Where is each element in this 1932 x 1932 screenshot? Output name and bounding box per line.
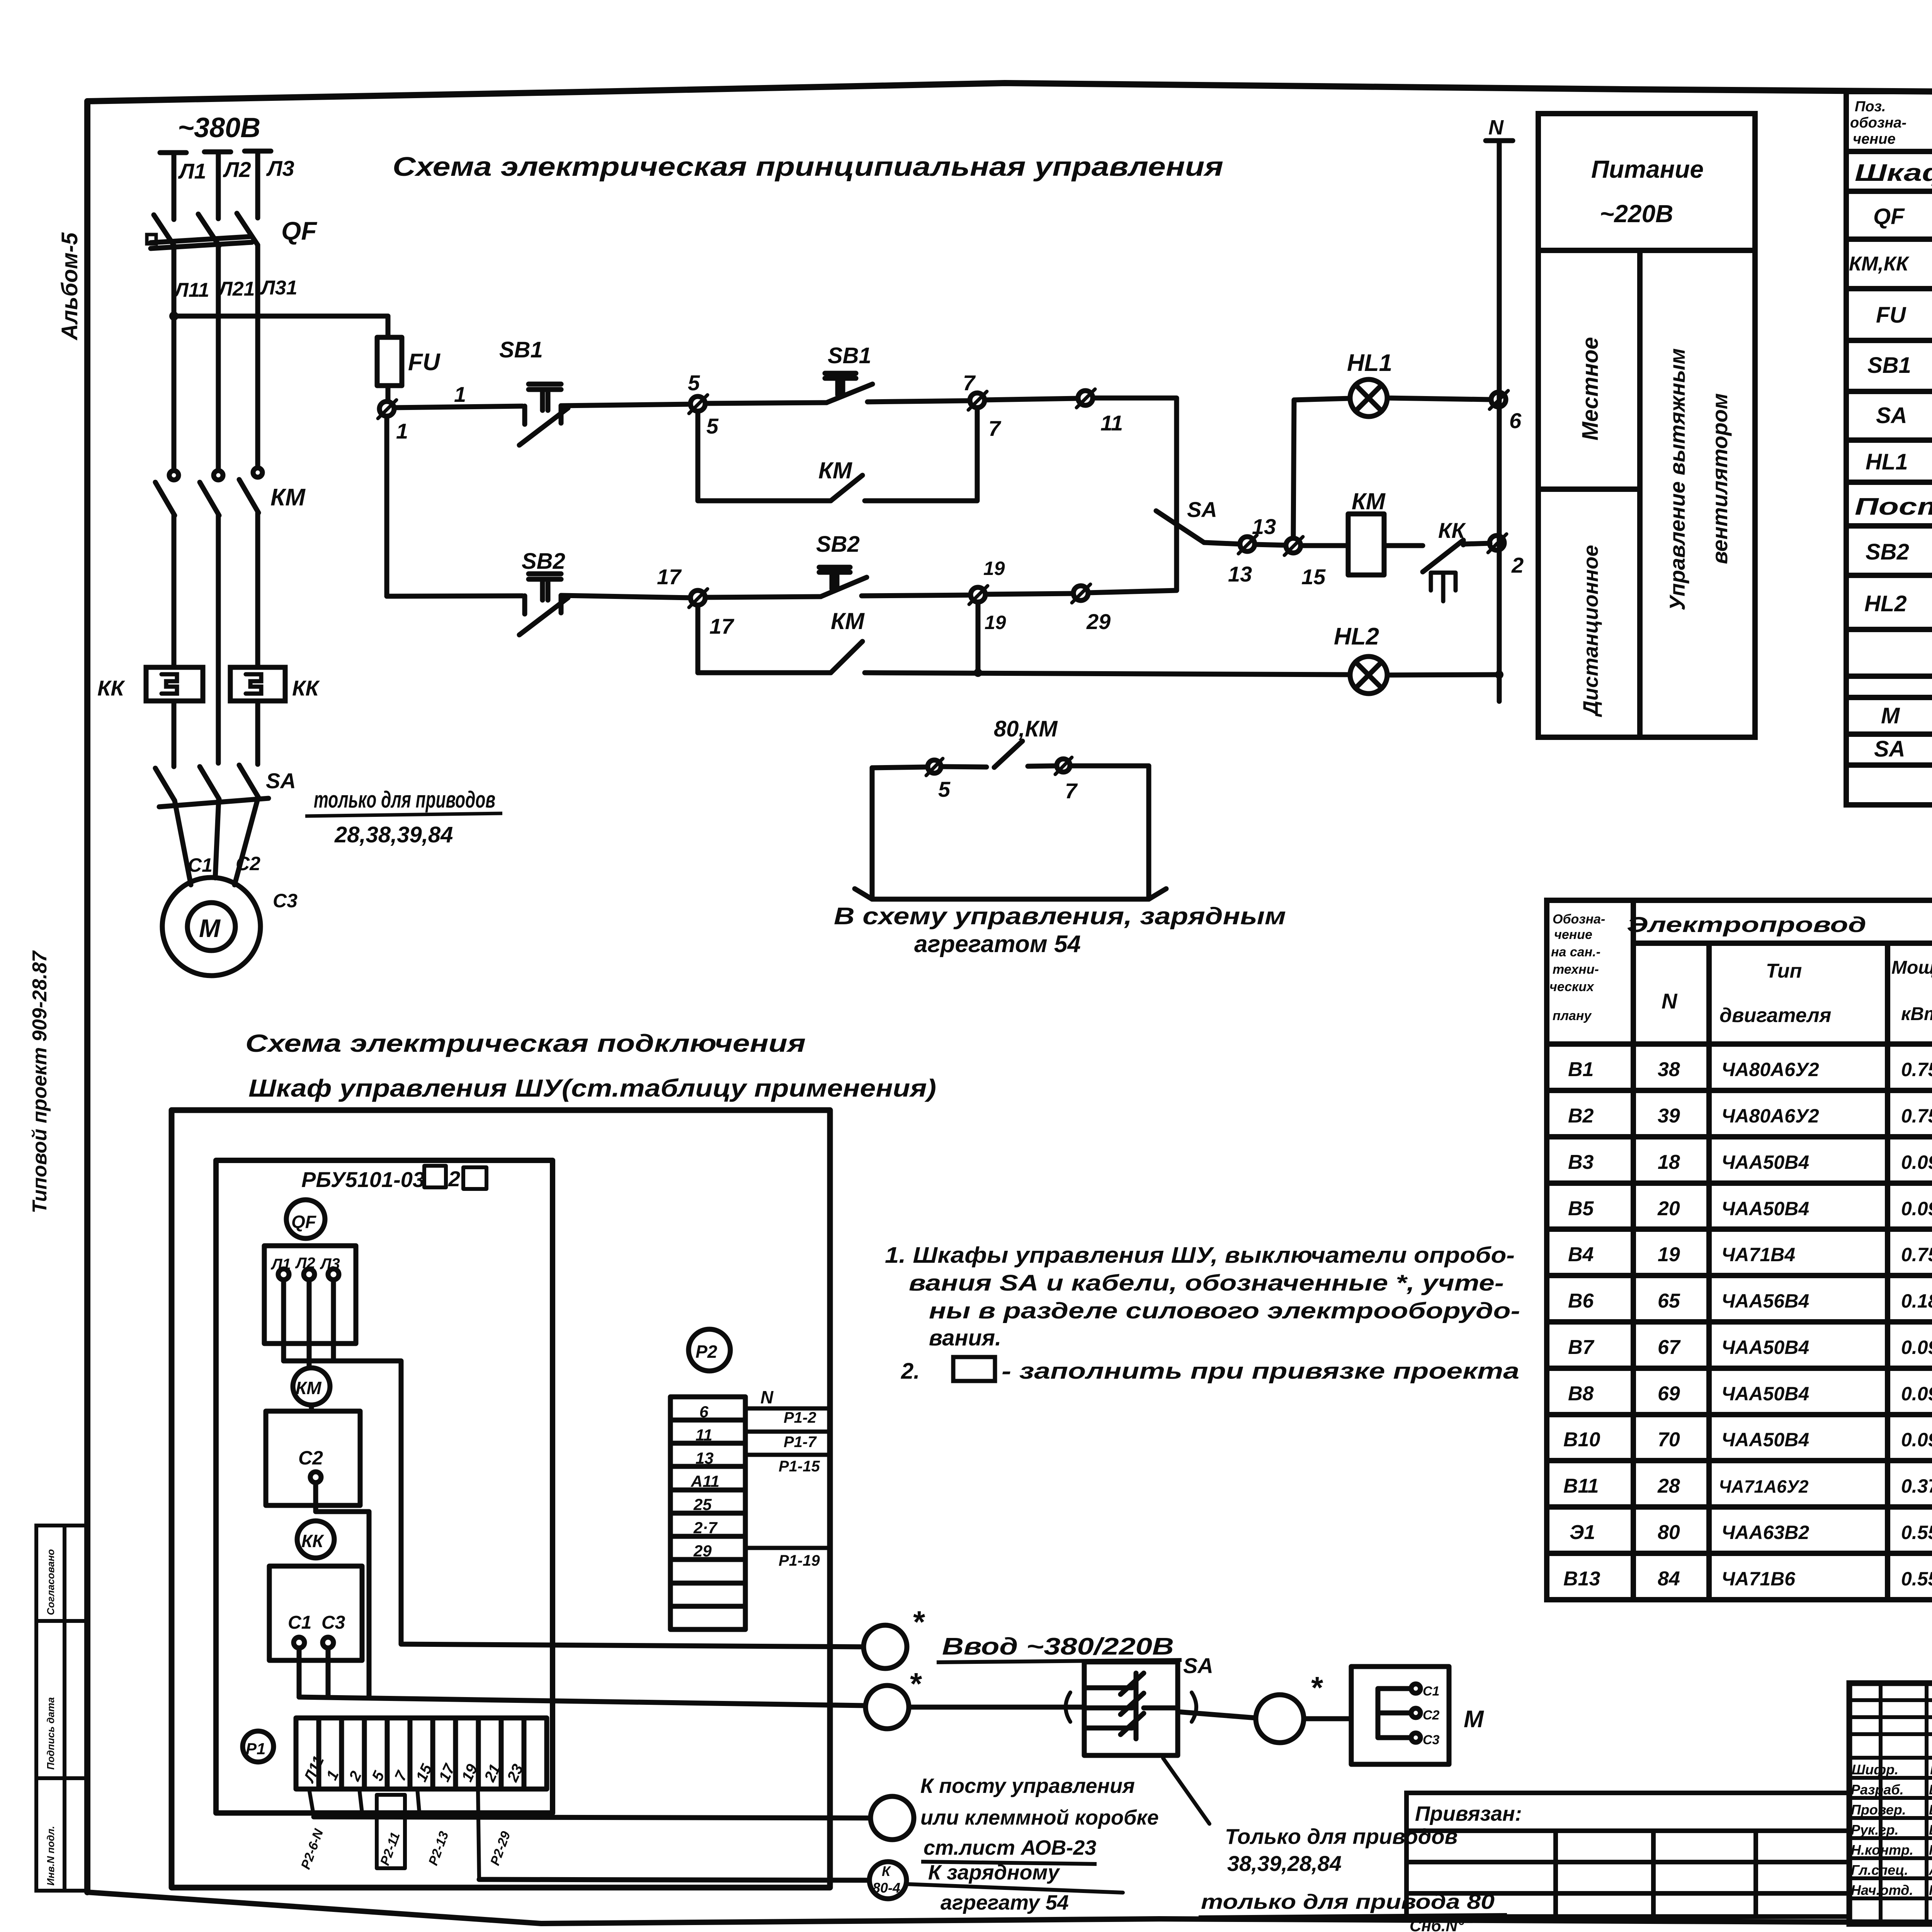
svg-text:ЧАА50В4: ЧАА50В4 xyxy=(1721,1198,1809,1219)
svg-text:Снб.N°: Снб.N° xyxy=(1410,1917,1464,1932)
vvod circle 1 xyxy=(864,1625,907,1668)
header poz xyxy=(1850,99,1906,147)
svg-text:69: 69 xyxy=(1658,1383,1680,1405)
button SB1 NC xyxy=(519,384,568,445)
svg-text:6: 6 xyxy=(699,1403,709,1421)
wire row1 FU to SB1 xyxy=(394,406,522,408)
node 19 circle xyxy=(969,586,988,604)
wire SA to node13 xyxy=(1204,543,1240,544)
svg-text:SВ2: SВ2 xyxy=(816,532,860,557)
svg-text:N докум: N докум xyxy=(1930,1762,1932,1777)
terminal box L1L2L3 xyxy=(264,1246,356,1344)
svg-text:17: 17 xyxy=(657,565,682,589)
switch SA control arm xyxy=(1156,511,1204,543)
wire row2 start to SB2 xyxy=(387,596,522,596)
svg-text:В3: В3 xyxy=(1568,1151,1594,1173)
wire SB1start to node7 xyxy=(867,401,970,402)
svg-text:67: 67 xyxy=(1658,1336,1681,1359)
svg-text:вания SА и кабели, обозначенны: вания SА и кабели, обозначенные *, учте- xyxy=(909,1270,1504,1296)
svg-text:кВт.: кВт. xyxy=(1901,1004,1932,1024)
svg-text:Обозна-: Обозна- xyxy=(1553,912,1605,927)
svg-text:ЧА80А6У2: ЧА80А6У2 xyxy=(1721,1059,1819,1080)
svg-text:84: 84 xyxy=(1658,1568,1680,1590)
svg-text:плану: плану xyxy=(1553,1009,1592,1023)
wire coil to KK contact xyxy=(1384,543,1423,548)
svg-text:Поз.: Поз. xyxy=(1855,99,1886,115)
svg-text:Л1: Л1 xyxy=(270,1256,291,1273)
R1 strip cell labels rotated xyxy=(300,1753,527,1786)
k 80-4 circle xyxy=(869,1862,906,1899)
svg-text:К: К xyxy=(882,1863,891,1879)
svg-text:2: 2 xyxy=(1511,553,1524,577)
thermal contact KK break xyxy=(1423,540,1490,601)
HL1 branch vertical xyxy=(1293,398,1350,538)
svg-text:Р2: Р2 xyxy=(696,1342,718,1362)
wire to motor box xyxy=(1304,1716,1351,1721)
svg-text:Р1-7: Р1-7 xyxy=(784,1434,817,1451)
wire k 80-4 xyxy=(479,1879,869,1880)
svg-text:Подпись дата: Подпись дата xyxy=(45,1697,56,1770)
svg-text:Шкаф управления ШУ(ст. таблицу: Шкаф управления ШУ(ст. таблицу применени… xyxy=(1855,160,1932,186)
svg-text:0.55: 0.55 xyxy=(1901,1568,1932,1590)
svg-text:13: 13 xyxy=(1252,514,1276,539)
node 5 circle loop xyxy=(926,759,943,776)
svg-text:В11: В11 xyxy=(1563,1475,1599,1497)
svg-text:20: 20 xyxy=(1657,1197,1680,1220)
svg-text:С3: С3 xyxy=(321,1612,345,1633)
contact 80KM arm xyxy=(994,741,1022,767)
thermal relay KK left box xyxy=(146,667,203,701)
svg-text:5: 5 xyxy=(706,414,719,438)
svg-text:Л21: Л21 xyxy=(217,278,255,300)
svg-text:В5: В5 xyxy=(1568,1197,1594,1220)
thermal relay KK right box xyxy=(230,667,285,701)
wires from L box down xyxy=(284,1280,333,1368)
svg-text:FU: FU xyxy=(408,349,441,376)
box C2 xyxy=(266,1411,360,1505)
svg-text:N: N xyxy=(1488,116,1504,139)
phase verticals below KM xyxy=(174,513,258,763)
svg-text:С3: С3 xyxy=(273,890,298,912)
svg-text:КК: КК xyxy=(97,676,125,700)
svg-text:Э1: Э1 xyxy=(1570,1521,1595,1544)
component table frame xyxy=(1846,92,1932,805)
svg-text:КМ,КК: КМ,КК xyxy=(1849,253,1910,275)
svg-text:М: М xyxy=(199,914,221,942)
svg-text:Л2: Л2 xyxy=(223,157,251,182)
junction dot on L1 xyxy=(169,311,179,321)
svg-text:Н.контр.: Н.контр. xyxy=(1851,1842,1913,1858)
leader from k80-4 xyxy=(906,1884,1123,1893)
phase verticals below QF xyxy=(174,245,258,471)
R2 circle xyxy=(689,1329,730,1371)
svg-text:25: 25 xyxy=(693,1495,712,1514)
svg-text:0.75: 0.75 xyxy=(1901,1244,1932,1265)
wire SA to motor circle xyxy=(1178,1712,1256,1718)
svg-text:В схему управления, зарядным: В схему управления, зарядным xyxy=(834,903,1286,930)
KM aux contact branch row1 xyxy=(698,408,977,501)
svg-text:КМ: КМ xyxy=(1352,488,1386,514)
svg-text:ЧА71В4: ЧА71В4 xyxy=(1721,1244,1795,1265)
svg-text:Пост управления ПС (ст.табли: Пост управления ПС (ст.таблицу нрименени… xyxy=(1855,493,1932,520)
svg-text:0.09: 0.09 xyxy=(1901,1198,1932,1219)
box C1 C3 xyxy=(269,1566,362,1660)
wire node15 to KM coil xyxy=(1301,543,1348,548)
row KM KK xyxy=(1849,246,1932,285)
wire C2 to vvod2 xyxy=(316,1483,369,1697)
svg-text:Питание: Питание xyxy=(1591,155,1704,183)
svg-text:Дистанционное: Дистанционное xyxy=(1579,545,1602,717)
svg-text:0.18: 0.18 xyxy=(1901,1290,1932,1312)
svg-text:ЧАА50В4: ЧАА50В4 xyxy=(1721,1383,1809,1405)
svg-text:Л2: Л2 xyxy=(295,1255,315,1272)
node 2 circle xyxy=(1488,534,1507,553)
svg-text:Гл.спец.: Гл.спец. xyxy=(1851,1862,1908,1878)
svg-text:7: 7 xyxy=(963,371,976,395)
svg-text:КМ: КМ xyxy=(831,608,865,634)
svg-text:двигателя: двигателя xyxy=(1719,1004,1831,1027)
svg-text:Р1-2: Р1-2 xyxy=(784,1409,816,1426)
svg-text:Волкова: Волкова xyxy=(1929,1802,1932,1818)
row HL2 xyxy=(1864,582,1932,624)
svg-text:1. Шкафы управления ШУ, выключ: 1. Шкафы управления ШУ, выключатели опро… xyxy=(885,1243,1515,1268)
svg-text:Нач.отд.: Нач.отд. xyxy=(1851,1882,1913,1898)
svg-text:Ввод ~380/220В: Ввод ~380/220В xyxy=(942,1633,1174,1660)
svg-text:чение: чение xyxy=(1554,927,1592,942)
motor M circle xyxy=(162,878,260,976)
pitanie box frame xyxy=(1538,114,1755,737)
svg-text:Р1-15: Р1-15 xyxy=(779,1458,820,1475)
motor circle star xyxy=(1256,1695,1304,1743)
big table data column V xyxy=(1563,1058,1600,1590)
row SA po mestu xyxy=(1874,734,1932,767)
svg-text:М: М xyxy=(1881,703,1900,728)
svg-text:КК: КК xyxy=(1438,518,1466,543)
svg-text:В6: В6 xyxy=(1568,1290,1594,1312)
svg-text:РБУ5101-03: РБУ5101-03 xyxy=(301,1167,425,1192)
power feed wire to FU xyxy=(174,316,388,337)
lamp HL2 xyxy=(1350,656,1387,694)
svg-text:Шкаф управления ШУ(ст.таблицу: Шкаф управления ШУ(ст.таблицу применения… xyxy=(248,1074,936,1102)
component table rows xyxy=(1846,149,1932,154)
svg-text:N: N xyxy=(1662,989,1678,1013)
svg-text:N: N xyxy=(760,1387,774,1407)
svg-text:КК: КК xyxy=(301,1531,324,1551)
svg-text:80-4: 80-4 xyxy=(872,1880,900,1896)
KK circle xyxy=(297,1521,334,1558)
svg-text:Альбом-5: Альбом-5 xyxy=(57,232,82,341)
wire node11 to right corner xyxy=(1093,398,1177,590)
svg-text:Электропровод: Электропровод xyxy=(1627,912,1866,937)
svg-text:6: 6 xyxy=(1509,408,1522,433)
svg-text:Л3: Л3 xyxy=(320,1255,340,1272)
wire node13 to node15 xyxy=(1255,544,1286,545)
inner box RBU xyxy=(216,1160,553,1813)
svg-text:НL2: НL2 xyxy=(1864,591,1907,616)
svg-text:вания.: вания. xyxy=(929,1325,1001,1350)
wire HL1 to node6 xyxy=(1387,398,1490,400)
svg-text:19: 19 xyxy=(983,558,1005,579)
svg-text:SА: SА xyxy=(1183,1653,1213,1678)
QF circle xyxy=(286,1200,325,1238)
svg-text:29: 29 xyxy=(693,1542,712,1560)
row QF xyxy=(1873,198,1932,240)
big table header rows xyxy=(1633,940,1932,946)
svg-text:КМ: КМ xyxy=(296,1378,322,1398)
svg-text:SВ1: SВ1 xyxy=(828,343,871,368)
svg-text:ЧА80А6У2: ЧА80А6У2 xyxy=(1721,1105,1819,1127)
terminal strip R2 xyxy=(670,1397,745,1629)
svg-text:0.37: 0.37 xyxy=(1901,1475,1932,1497)
svg-text:Л31: Л31 xyxy=(260,277,298,299)
big table data column N xyxy=(1657,1058,1681,1590)
row FU xyxy=(1876,296,1932,339)
svg-text:КМ: КМ xyxy=(818,457,853,483)
button SB1 NO start xyxy=(825,373,872,403)
svg-text:В4: В4 xyxy=(1568,1243,1594,1266)
svg-text:1: 1 xyxy=(454,382,466,406)
svg-text:В2: В2 xyxy=(1568,1105,1594,1127)
big table frame xyxy=(1547,900,1932,1600)
svg-text:1: 1 xyxy=(396,419,408,443)
svg-text:19: 19 xyxy=(1658,1243,1680,1266)
svg-text:5: 5 xyxy=(688,371,700,395)
svg-text:Инв.N подл.: Инв.N подл. xyxy=(45,1826,56,1886)
phase verticals below KK xyxy=(174,701,258,767)
svg-text:11: 11 xyxy=(696,1426,713,1444)
svg-text:7: 7 xyxy=(988,416,1002,440)
svg-text:Р1-19: Р1-19 xyxy=(779,1552,820,1569)
svg-text:15: 15 xyxy=(1301,565,1326,589)
fuse FU xyxy=(377,337,402,401)
R1 strip drops xyxy=(309,1789,479,1879)
svg-text:С2: С2 xyxy=(1423,1708,1440,1723)
svg-text:агрегатом 54: агрегатом 54 xyxy=(914,931,1081,957)
svg-text:ны в разделе силового электроо: ны в разделе силового электрооборудо- xyxy=(929,1298,1520,1323)
svg-text:НL2: НL2 xyxy=(1334,623,1379,650)
svg-text:ЧАА50В4: ЧАА50В4 xyxy=(1721,1337,1809,1358)
svg-text:28: 28 xyxy=(1657,1475,1680,1497)
wire k postu xyxy=(314,1817,871,1818)
big table verticals xyxy=(1631,900,1636,1600)
neutral line N xyxy=(1486,141,1513,701)
svg-text:80,КМ: 80,КМ xyxy=(994,716,1058,742)
svg-text:0.09: 0.09 xyxy=(1901,1429,1932,1451)
svg-text:В7: В7 xyxy=(1568,1336,1595,1359)
svg-text:ст.лист АОВ-23: ст.лист АОВ-23 xyxy=(923,1836,1096,1859)
svg-text:Согласовано: Согласовано xyxy=(45,1549,56,1615)
R2 wires right xyxy=(745,1408,828,1548)
node 7 circle xyxy=(968,391,987,410)
svg-text:38: 38 xyxy=(1658,1058,1680,1081)
row SB2 xyxy=(1866,539,1932,565)
svg-text:SВ1: SВ1 xyxy=(1867,353,1911,378)
staff rows xyxy=(1851,1762,1932,1898)
svg-text:К посту управления: К посту управления xyxy=(920,1774,1135,1798)
node 5 circle xyxy=(689,395,707,413)
switch SA power blades xyxy=(155,765,269,807)
wire SB1 to node5 xyxy=(561,404,690,406)
svg-text:агрегату 54: агрегату 54 xyxy=(940,1891,1069,1914)
node 29 circle xyxy=(1072,584,1090,603)
svg-text:*: * xyxy=(909,1667,922,1701)
node 1 circle xyxy=(378,400,396,418)
left margin stamp table xyxy=(36,1526,87,1891)
svg-text:7: 7 xyxy=(1065,779,1078,803)
svg-text:Р1: Р1 xyxy=(246,1740,265,1758)
svg-text:65: 65 xyxy=(1658,1290,1680,1312)
svg-text:НL1: НL1 xyxy=(1866,449,1908,474)
svg-text:Рук.гр.: Рук.гр. xyxy=(1851,1822,1899,1838)
svg-text:~380В: ~380В xyxy=(178,112,260,143)
svg-text:13: 13 xyxy=(696,1449,714,1467)
node 13 circle xyxy=(1238,535,1257,554)
svg-text:- заполнить при привязке проек: - заполнить при привязке проекта xyxy=(1002,1359,1519,1384)
svg-text:К зарядному: К зарядному xyxy=(928,1861,1060,1884)
svg-text:или клеммной коробке: или клеммной коробке xyxy=(920,1806,1159,1829)
wire node29 to SA vertical xyxy=(1088,590,1177,593)
cabinet ShU outer box xyxy=(172,1110,830,1888)
svg-text:ЧАА63В2: ЧАА63В2 xyxy=(1721,1522,1809,1543)
svg-text:КК: КК xyxy=(292,676,320,700)
big table data column motor type xyxy=(1719,1059,1819,1590)
svg-text:*: * xyxy=(1310,1670,1323,1705)
row HL1 xyxy=(1866,444,1932,483)
svg-text:Тип: Тип xyxy=(1766,960,1802,982)
motor box M xyxy=(1351,1667,1449,1764)
motor leads xyxy=(175,798,258,885)
wire node7 to node11 xyxy=(985,398,1078,400)
svg-text:В1: В1 xyxy=(1568,1058,1594,1081)
svg-text:0.09: 0.09 xyxy=(1901,1383,1932,1405)
svg-text:0.75: 0.75 xyxy=(1901,1105,1932,1127)
svg-text:А11: А11 xyxy=(690,1472,719,1490)
svg-text:Петровская: Петровская xyxy=(1929,1842,1932,1858)
svg-text:Шифр.: Шифр. xyxy=(1852,1762,1898,1777)
wire HL2 to N xyxy=(1387,675,1499,675)
button SB2 NC xyxy=(519,574,568,635)
svg-text:обозна-: обозна- xyxy=(1850,115,1906,131)
svg-text:18: 18 xyxy=(1658,1151,1680,1173)
svg-text:чение: чение xyxy=(1853,131,1896,147)
phase line L3 top xyxy=(245,151,271,218)
svg-text:Л11: Л11 xyxy=(173,279,209,301)
svg-text:С1: С1 xyxy=(188,854,213,876)
svg-text:QF: QF xyxy=(281,216,317,245)
wire SB2 to node17 xyxy=(561,595,690,598)
svg-text:0.55: 0.55 xyxy=(1901,1522,1932,1543)
node 11 circle xyxy=(1077,389,1095,408)
svg-text:SВ2: SВ2 xyxy=(1866,539,1909,565)
svg-text:ческих: ческих xyxy=(1549,980,1595,994)
svg-text:Местное: Местное xyxy=(1578,337,1603,440)
svg-text:SА: SА xyxy=(1187,497,1217,522)
phase line L1 top xyxy=(160,153,186,219)
title block frame xyxy=(1849,1683,1932,1924)
svg-text:вентилятором: вентилятором xyxy=(1708,393,1732,564)
svg-text:QF: QF xyxy=(291,1212,317,1232)
svg-text:13: 13 xyxy=(1228,562,1252,586)
contactor coil KM xyxy=(1348,514,1384,575)
terminal strip R1 xyxy=(296,1718,547,1789)
row M xyxy=(1881,701,1932,736)
svg-text:19: 19 xyxy=(985,612,1006,633)
svg-text:SВ2: SВ2 xyxy=(522,549,565,574)
svg-text:Управление вытяжным: Управление вытяжным xyxy=(1665,348,1689,611)
loop wires xyxy=(872,767,927,768)
svg-text:Волкова: Волкова xyxy=(1929,1822,1932,1838)
k postu circle 3 xyxy=(871,1796,914,1840)
svg-text:Л3: Л3 xyxy=(266,156,294,180)
switch SA box xyxy=(909,1662,1196,1755)
junction dot KM row2 branch xyxy=(974,668,982,677)
svg-text:С1: С1 xyxy=(1423,1684,1439,1699)
svg-text:2.: 2. xyxy=(901,1359,920,1384)
svg-text:ЧА71А6У2: ЧА71А6У2 xyxy=(1719,1476,1809,1497)
node 15 circle xyxy=(1284,537,1303,555)
bus and drop to vvod1 wire xyxy=(284,1361,864,1647)
svg-text:С2: С2 xyxy=(236,853,260,874)
big table row lines xyxy=(1547,1088,1932,1093)
svg-text:техни-: техни- xyxy=(1553,962,1599,977)
svg-text:Только для приводов: Только для приводов xyxy=(1225,1824,1458,1849)
svg-text:КМ: КМ xyxy=(270,484,306,511)
breaker QF blades xyxy=(147,213,258,248)
svg-text:SА: SА xyxy=(1876,403,1907,428)
svg-text:FU: FU xyxy=(1876,303,1906,328)
contactor KM main contacts xyxy=(155,468,262,515)
wire node19 to node29 xyxy=(985,594,1073,594)
svg-text:2: 2 xyxy=(448,1167,460,1191)
svg-text:5: 5 xyxy=(938,777,951,801)
node 6 circle xyxy=(1490,391,1508,409)
svg-text:Схема электрическая подключени: Схема электрическая подключения xyxy=(245,1029,806,1057)
svg-text:SА: SА xyxy=(1874,736,1905,762)
row SB1 xyxy=(1867,347,1932,390)
node 17 circle xyxy=(689,589,707,607)
svg-text:70: 70 xyxy=(1658,1429,1680,1451)
svg-text:Типовой проект 909-28.87: Типовой проект 909-28.87 xyxy=(29,950,51,1213)
bus to vvod2 circle xyxy=(299,1697,865,1706)
svg-text:Схема электрическая принципиал: Схема электрическая принципиальная управ… xyxy=(393,151,1223,182)
svg-text:29: 29 xyxy=(1086,609,1111,634)
svg-text:80: 80 xyxy=(1658,1521,1680,1544)
svg-text:ЧА71В6: ЧА71В6 xyxy=(1721,1568,1796,1590)
svg-text:SВ1: SВ1 xyxy=(499,337,543,362)
svg-text:М: М xyxy=(1464,1706,1484,1733)
svg-text:В10: В10 xyxy=(1563,1429,1600,1451)
KM circle xyxy=(293,1368,330,1405)
svg-text:*: * xyxy=(912,1605,925,1639)
svg-text:11: 11 xyxy=(1100,411,1123,435)
svg-text:ЧАА50В4: ЧАА50В4 xyxy=(1721,1429,1809,1451)
svg-text:Л1: Л1 xyxy=(178,159,206,183)
svg-text:С2: С2 xyxy=(298,1447,323,1469)
big table headers xyxy=(1549,908,1932,1033)
R2 cell labels xyxy=(690,1403,719,1560)
svg-text:Привязан:: Привязан: xyxy=(1415,1802,1522,1825)
title block small top rows xyxy=(1849,1700,1932,1898)
R1 circle xyxy=(243,1731,274,1762)
svg-text:С3: С3 xyxy=(1423,1733,1440,1747)
wire KM to C2 box xyxy=(309,1405,314,1411)
lamp HL1 xyxy=(1350,379,1387,417)
phase line L2 top xyxy=(204,152,231,219)
button SB2 NO start xyxy=(819,567,867,597)
svg-text:НL1: НL1 xyxy=(1347,350,1392,376)
wire SB2start to node19 xyxy=(862,595,971,596)
wires C1 C3 to bus xyxy=(299,1648,328,1697)
